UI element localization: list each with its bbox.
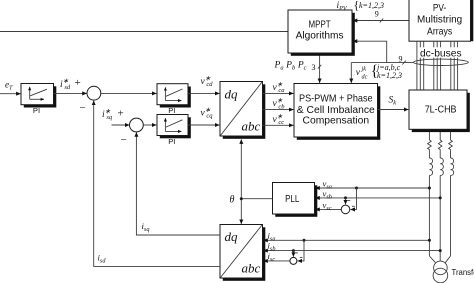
block PS-PWM shadow [297,86,381,140]
transform block dq1 shadow [223,84,265,139]
wire e_T into PI1 [0,93,21,95]
wire PI3 to dq1, label v*_cq [188,124,219,126]
wire v_dc to MPPT [353,41,387,62]
svg-text:θ: θ [230,194,235,205]
block PLL shadow [275,185,317,217]
wire v*_cb dq1 to PS-PWM [263,109,294,111]
block PLL box [273,183,315,215]
wire v_sa to PLL [315,187,429,189]
PI controller PI2 shadow [160,87,191,108]
wire P powers MPPT to PS-PWM [319,53,321,83]
wire dc-bus horizontal [351,62,413,64]
wire i_sq feedback [136,132,220,235]
svg-text:9: 9 [375,10,379,19]
svg-text:7L-CHB: 7L-CHB [425,105,457,116]
svg-text:i∗sd: i∗sd [60,77,71,91]
wire i_sa drop into sum [298,240,304,261]
svg-text:−: − [121,134,127,146]
transformer secondary circle [433,268,448,283]
transformer primary circle [434,261,448,275]
svg-text:jk: jk [361,65,367,72]
block 7L-CHB box [409,90,467,129]
svg-text:eT: eT [5,80,13,92]
phase line b with resistor and inductor [438,132,443,261]
junction dot i_sb drop [292,249,295,252]
wire S2 to PI3 [143,124,156,126]
wire v*_ca dq1 to PS-PWM [263,92,294,94]
PI3 icon axes [164,118,166,131]
summing junction S1 [87,86,101,100]
junction dot v_sa drop [355,187,358,190]
junction v_sb phase b [439,196,442,199]
junction i_sa phase a [428,239,431,242]
slash bus width 9 top [380,19,383,23]
PI controller PI1 shadow [24,86,57,107]
svg-text:v∗cd: v∗cd [201,74,214,88]
svg-text:vsc: vsc [323,200,332,212]
wire i_sb to dq2 [263,250,440,252]
minus marks voltage sum [347,200,350,202]
PI1 icon axes [29,87,31,99]
svg-text:dq: dq [225,229,239,244]
svg-text:MPPT: MPPT [309,20,331,31]
svg-text:−: − [80,102,86,114]
summing junction current [290,257,297,264]
svg-text:3: 3 [312,63,316,72]
wire i_PV from PV arrays to MPPT [353,20,409,22]
PI controller PI3 shadow [160,117,191,138]
wire v*_cc dq1 to PS-PWM [263,124,294,126]
wire i_sa to dq2 [263,239,429,241]
slash bus width 3 [318,65,321,69]
block PS-PWM box [294,84,378,138]
block 7L-CHB shadow [412,93,470,132]
minus marks current sum [295,252,298,254]
transform block dq2 box [220,225,263,279]
svg-text:Transformer: Transformer [452,267,474,277]
wire S1 to PI2 [100,92,156,94]
svg-text:PI: PI [168,106,175,115]
svg-text:abc: abc [242,260,261,275]
transform block dq2 shadow [223,227,265,280]
svg-text:Algorithms: Algorithms [296,30,344,41]
junction i_sb phase b [439,249,442,252]
transform block dq1 box [220,82,263,137]
svg-text:PaPbPc: PaPbPc [274,61,307,72]
PI2 icon axes [164,87,166,100]
svg-text:v∗cb: v∗cb [273,97,286,111]
wire v_sa drop into sum [351,188,357,209]
svg-text:v∗ca: v∗ca [273,80,285,94]
svg-text:dq: dq [225,86,239,101]
transformer converging wires [429,256,435,263]
summing junction voltage [341,205,350,214]
svg-text:PI: PI [168,137,175,146]
block MPPT box [288,10,352,53]
wire: reference input into MPPT (top-left horizontal) [0,31,288,33]
wire v_dc down into PS-PWM [350,63,352,83]
wire v_sc to PLL [315,208,341,210]
junction dot i_sa drop [303,239,306,242]
svg-text:isd: isd [98,253,107,265]
PI controller PI1 box [21,84,54,105]
phase line a with resistor and inductor [428,132,433,256]
svg-text:v: v [356,68,361,78]
junction v_sa phase a [428,187,431,190]
wire v_sb drop into sum [345,198,347,205]
svg-text:dc-buses: dc-buses [420,48,462,59]
PI controller PI2 box [157,84,188,105]
wire PI2 to dq1, label v*_cd [188,92,219,94]
wire theta down into dq2 [240,199,242,224]
svg-text:PI: PI [33,106,40,115]
svg-text:v∗cc: v∗cc [273,112,285,126]
svg-text:Sk: Sk [389,95,397,106]
wire theta from PLL [241,198,272,200]
dc-bus wires 9 lines [417,41,458,90]
wire i_sc to dq2 [263,260,290,262]
svg-text:k=1,2,3: k=1,2,3 [359,1,384,10]
svg-text:PLL: PLL [285,194,300,205]
summing junction S2 [130,118,144,132]
svg-text:i∗sq: i∗sq [102,107,113,121]
block PV arrays box [409,0,471,41]
wire i*_sq into sum S2 [112,124,130,126]
wire v_sb to PLL [315,197,440,199]
svg-text:dc: dc [362,73,368,80]
ellipse dc-bus grouping [414,59,469,65]
junction dot v_sb drop [344,196,347,199]
svg-text:v∗cq: v∗cq [201,106,214,120]
wire i_sd feedback [94,101,220,267]
svg-text:+: + [118,108,124,120]
svg-text:PS-PWM + Phase: PS-PWM + Phase [299,93,373,104]
svg-text:PV-: PV- [433,3,446,14]
svg-text:& Cell Imbalance: & Cell Imbalance [297,105,375,116]
svg-text:Compensation: Compensation [303,116,370,127]
wire S_k PS-PWM to 7L-CHB [378,109,409,111]
block MPPT shadow [291,13,355,56]
wire theta up into dq1 [240,139,242,198]
junction theta [240,197,243,200]
svg-text:k=1,2,3: k=1,2,3 [377,71,402,80]
label dc-buses [419,47,463,57]
phase line c with resistor and inductor [449,132,454,256]
svg-text:abc: abc [242,119,261,134]
PI controller PI3 box [157,115,188,136]
svg-text:isq: isq [142,221,150,233]
block PV arrays shadow [412,0,474,41]
dq2 diagonal [221,225,263,278]
wire i_sb drop into sum [292,251,294,257]
wire PI1 output to sum S1 [54,92,87,94]
slash bus width 9 [402,61,405,65]
svg-text:Multistring: Multistring [417,14,462,25]
svg-text:+: + [75,77,81,89]
dq1 diagonal [221,82,263,136]
svg-text:Arrays: Arrays [427,27,452,38]
